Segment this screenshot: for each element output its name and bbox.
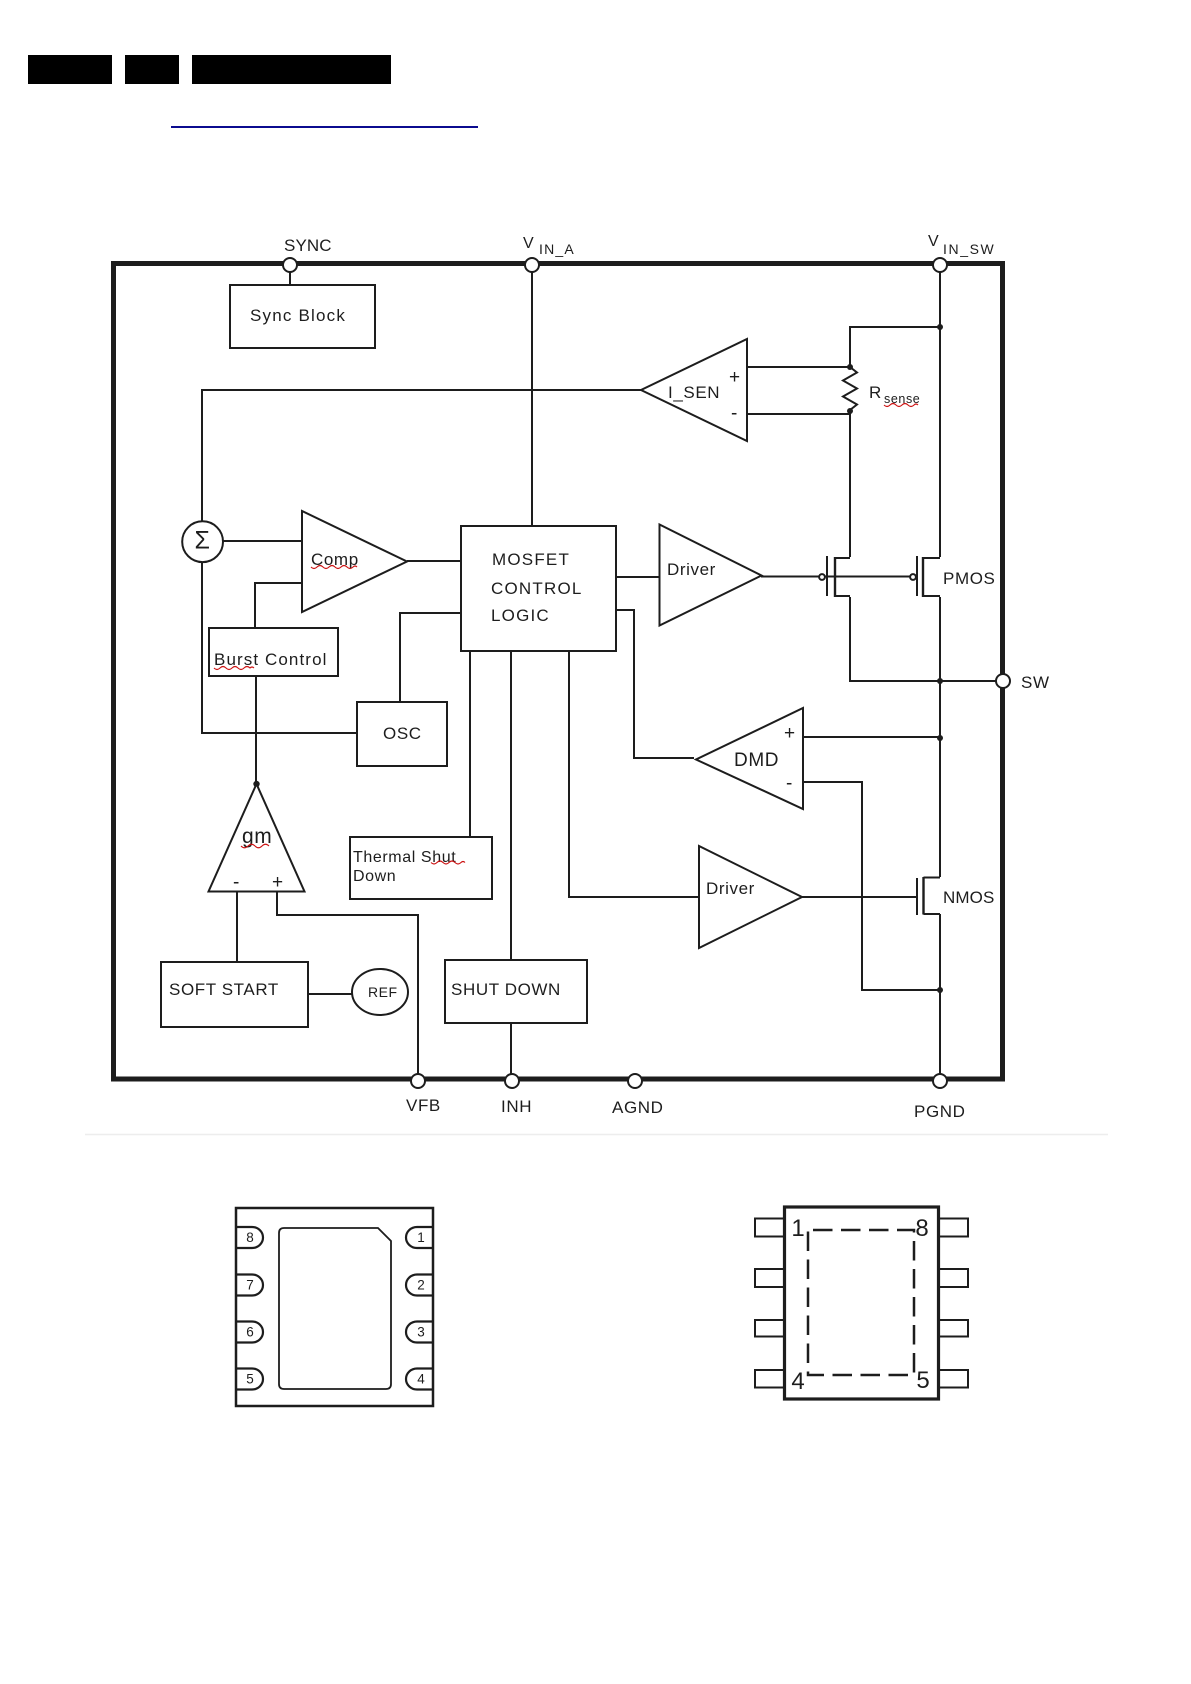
svg-text:SW: SW	[1021, 673, 1050, 692]
svg-text:Driver: Driver	[667, 560, 716, 579]
svg-text:MOSFET: MOSFET	[492, 550, 570, 569]
svg-text:PGND: PGND	[914, 1102, 966, 1121]
svg-text:I_SEN: I_SEN	[668, 383, 720, 402]
svg-text:VFB: VFB	[406, 1096, 441, 1115]
svg-text:Thermal Shut: Thermal Shut	[353, 849, 456, 866]
svg-text:SHUT DOWN: SHUT DOWN	[451, 980, 561, 999]
svg-text:CONTROL: CONTROL	[491, 579, 583, 598]
svg-text:4: 4	[791, 1368, 804, 1395]
svg-text:IN_SW: IN_SW	[943, 241, 995, 257]
svg-text:8: 8	[246, 1230, 254, 1245]
svg-text:SYNC: SYNC	[284, 236, 332, 255]
svg-text:-: -	[731, 403, 738, 424]
svg-text:R: R	[869, 383, 882, 402]
svg-text:V: V	[523, 235, 534, 252]
svg-text:PMOS: PMOS	[943, 569, 995, 588]
svg-text:IN_A: IN_A	[539, 241, 575, 257]
svg-text:3: 3	[417, 1325, 425, 1340]
svg-text:SOFT START: SOFT START	[169, 980, 279, 999]
svg-text:1: 1	[791, 1215, 804, 1242]
svg-text:+: +	[784, 723, 796, 744]
svg-text:8: 8	[915, 1215, 928, 1242]
svg-text:V: V	[928, 233, 939, 250]
svg-text:Σ: Σ	[195, 527, 211, 555]
svg-text:2: 2	[417, 1278, 425, 1293]
svg-text:DMD: DMD	[734, 750, 779, 771]
svg-text:7: 7	[246, 1278, 254, 1293]
svg-text:OSC: OSC	[383, 724, 422, 743]
svg-text:-: -	[786, 773, 793, 794]
svg-text:+: +	[272, 872, 284, 893]
svg-text:Sync Block: Sync Block	[250, 306, 346, 325]
svg-text:6: 6	[246, 1325, 254, 1340]
svg-text:4: 4	[417, 1372, 425, 1387]
svg-text:5: 5	[246, 1372, 254, 1387]
svg-text:Down: Down	[353, 868, 396, 885]
svg-text:REF: REF	[368, 984, 398, 1000]
svg-text:1: 1	[417, 1230, 425, 1245]
svg-text:Driver: Driver	[706, 879, 755, 898]
svg-text:-: -	[233, 872, 240, 893]
svg-text:INH: INH	[501, 1097, 532, 1116]
svg-text:5: 5	[916, 1367, 929, 1394]
svg-text:NMOS: NMOS	[943, 888, 994, 907]
svg-text:Burst Control: Burst Control	[214, 650, 328, 669]
svg-text:AGND: AGND	[612, 1098, 664, 1117]
svg-text:LOGIC: LOGIC	[491, 606, 550, 625]
svg-text:+: +	[729, 367, 741, 388]
